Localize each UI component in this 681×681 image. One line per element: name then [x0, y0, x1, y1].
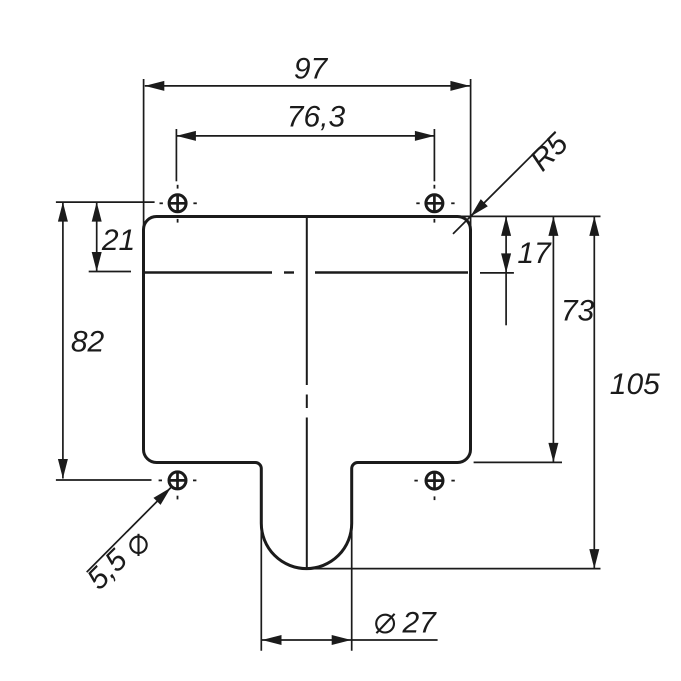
svg-text:76,3: 76,3: [287, 101, 346, 134]
svg-text:82: 82: [71, 326, 105, 359]
svg-text:73: 73: [561, 295, 595, 328]
svg-text:17: 17: [517, 237, 552, 270]
svg-text:97: 97: [294, 52, 329, 85]
svg-text:21: 21: [101, 224, 135, 257]
svg-text:27: 27: [402, 607, 438, 640]
svg-text:105: 105: [610, 368, 660, 401]
